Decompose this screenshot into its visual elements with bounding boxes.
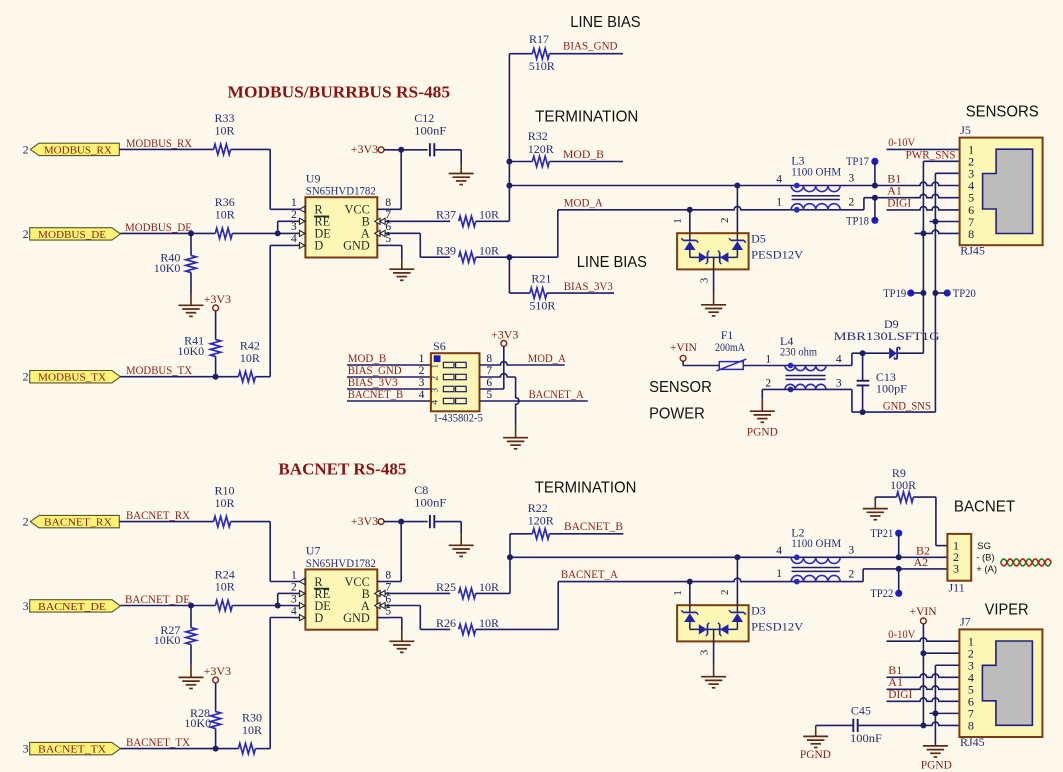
svg-text:BACNET_TX: BACNET_TX xyxy=(126,735,190,749)
svg-text:RJ45: RJ45 xyxy=(960,735,985,749)
svg-text:4: 4 xyxy=(291,233,297,245)
junction +3V3-VCC U7 xyxy=(398,519,404,525)
pin 3 (DE) of U9 xyxy=(291,221,331,241)
wire D5 pin1 drop xyxy=(689,210,691,233)
port BACNET_RX xyxy=(23,515,120,529)
pin 1 (R) of U9 xyxy=(291,197,323,217)
svg-text:BIAS_GND: BIAS_GND xyxy=(563,39,618,53)
junction C45 +VIN xyxy=(920,722,926,728)
svg-text:3: 3 xyxy=(953,562,959,576)
wire BACNET_DE to R24 xyxy=(120,605,215,607)
svg-text:3: 3 xyxy=(698,649,710,655)
svg-text:10R: 10R xyxy=(215,124,235,138)
ground PGND under J7 xyxy=(921,746,952,771)
svg-text:100nF: 100nF xyxy=(414,124,446,138)
resistor R26 xyxy=(436,616,499,635)
capacitor C12 xyxy=(401,111,461,162)
svg-text:120R: 120R xyxy=(528,142,554,156)
resistor R25 xyxy=(436,580,499,599)
junction +3V3-VCC xyxy=(398,147,404,153)
svg-text:510R: 510R xyxy=(529,298,555,312)
svg-text:7: 7 xyxy=(385,209,391,221)
ground below S6 pin7 xyxy=(515,425,517,438)
svg-text:+3V3: +3V3 xyxy=(204,664,231,678)
wire L2 bottom riser xyxy=(862,569,864,582)
wire R24 to U7 pin3 xyxy=(232,605,293,607)
svg-text:3: 3 xyxy=(419,377,425,389)
fuse F1 xyxy=(715,328,746,371)
wire D3 pin1 drop xyxy=(689,582,691,606)
ground below R27 xyxy=(179,666,204,689)
svg-text:BACNET RS-485: BACNET RS-485 xyxy=(278,459,406,478)
pin 7 (B) of U7 xyxy=(362,581,392,601)
power port +3V3 (C12) xyxy=(351,142,402,156)
svg-text:5: 5 xyxy=(486,389,492,401)
svg-text:R32: R32 xyxy=(528,129,548,143)
wire +3V3 to U7 VCC xyxy=(389,522,401,582)
svg-text:10K0: 10K0 xyxy=(154,633,181,647)
svg-text:8: 8 xyxy=(968,227,974,241)
svg-text:10K0: 10K0 xyxy=(178,344,205,358)
junction D9 anode xyxy=(860,350,866,356)
junction pin7 net xyxy=(932,219,938,225)
wire R21 left xyxy=(509,292,530,294)
ic body U7 xyxy=(305,544,377,630)
svg-text:GND_SNS: GND_SNS xyxy=(883,398,931,412)
connector J5 body xyxy=(960,123,1043,258)
inductor L2 (common mode choke) xyxy=(776,526,854,585)
ic body U9 xyxy=(305,171,377,257)
svg-text:100pF: 100pF xyxy=(876,382,907,396)
resistor R40 xyxy=(154,233,196,275)
port MODBUS_TX xyxy=(23,370,121,384)
ground below R9 xyxy=(874,500,876,509)
svg-text:2: 2 xyxy=(719,217,731,223)
power port +3V3 (S6) xyxy=(491,328,518,390)
svg-text:1: 1 xyxy=(419,353,425,365)
svg-text:510R: 510R xyxy=(529,59,555,73)
svg-text:BACNET_RX: BACNET_RX xyxy=(126,508,190,522)
wire RE tie U7 xyxy=(278,593,294,605)
svg-text:10R: 10R xyxy=(242,723,262,737)
svg-text:MBR130LSFT1G: MBR130LSFT1G xyxy=(834,329,940,343)
svg-text:MODBUS_TX: MODBUS_TX xyxy=(126,363,192,377)
power port +VIN xyxy=(670,340,719,366)
svg-text:J7: J7 xyxy=(960,615,971,629)
wire J5 pin8 stub xyxy=(914,230,959,233)
pin 4 (D) of U9 xyxy=(291,233,323,253)
svg-text:D5: D5 xyxy=(751,232,766,246)
inductor L4 (common mode choke) xyxy=(765,334,842,392)
labels SG -(B) +(A) xyxy=(976,541,997,575)
port BACNET_DE xyxy=(23,599,121,613)
wire 0-10V to J7 pin1 xyxy=(887,638,960,641)
ground below D5 xyxy=(713,293,715,305)
wire F1 through L4 xyxy=(743,365,852,367)
svg-text:1: 1 xyxy=(672,218,684,224)
junction RE-DE tie U7 xyxy=(275,603,281,609)
test point TP17 xyxy=(846,154,879,185)
svg-text:2: 2 xyxy=(291,209,297,221)
resistor R24 xyxy=(215,567,235,610)
svg-text:10R: 10R xyxy=(215,496,235,510)
svg-text:3: 3 xyxy=(291,221,297,233)
junction B bus to L2 xyxy=(507,554,513,560)
wire D5 pin2 drop xyxy=(736,186,738,234)
svg-text:0-10V: 0-10V xyxy=(888,627,915,641)
svg-text:5: 5 xyxy=(385,233,391,245)
junction R41-TX xyxy=(213,374,219,380)
svg-text:3: 3 xyxy=(836,378,842,390)
svg-text:4: 4 xyxy=(776,545,782,557)
wire U9 B to R37 xyxy=(389,220,450,222)
wire C45 to PGND xyxy=(815,724,817,726)
wire DIGI row xyxy=(887,207,960,210)
svg-text:BACNET_DE: BACNET_DE xyxy=(125,592,190,606)
junction pin8 net xyxy=(920,230,926,236)
capacitor C45 xyxy=(816,704,960,745)
junction C13 bottom xyxy=(860,409,866,415)
svg-text:2: 2 xyxy=(419,365,425,377)
wire B bus through L2 to J11 xyxy=(510,556,947,558)
svg-text:BACNET_DE: BACNET_DE xyxy=(38,601,106,613)
junction D3 pin2 tap xyxy=(734,554,740,560)
port BACNET_TX xyxy=(23,742,121,756)
test point TP22 xyxy=(870,569,902,600)
svg-text:PESD12V: PESD12V xyxy=(751,247,803,261)
svg-text:1100 OHM: 1100 OHM xyxy=(791,536,841,550)
ground below C12 xyxy=(460,163,462,174)
test point TP20 xyxy=(935,286,975,300)
wire U7 A to R26 xyxy=(389,606,450,630)
junction at R27 tap xyxy=(188,603,194,609)
svg-text:+3V3: +3V3 xyxy=(204,292,231,306)
wire BACNET_A through L2 xyxy=(558,578,863,581)
wire R36 to U9 pin3 xyxy=(232,232,293,234)
svg-text:BACNET_A: BACNET_A xyxy=(529,387,584,401)
svg-text:3: 3 xyxy=(430,388,440,393)
svg-text:6: 6 xyxy=(385,593,391,605)
svg-text:1: 1 xyxy=(291,197,297,209)
svg-text:1-435802-5: 1-435802-5 xyxy=(433,411,483,425)
wire L3 bottom riser xyxy=(863,198,865,210)
resistor R36 xyxy=(215,195,235,238)
ground below D3 xyxy=(713,665,715,677)
junction TP20 xyxy=(932,290,938,296)
junction TP21 xyxy=(896,554,902,560)
wire S6 pin2 xyxy=(347,376,431,378)
svg-text:4: 4 xyxy=(776,173,782,185)
pin 5 (GND) of U9 xyxy=(343,233,391,253)
svg-text:4: 4 xyxy=(419,389,425,401)
wire BACNET_TX to R30 xyxy=(120,748,238,750)
tvs D5 internal diodes xyxy=(681,233,745,269)
svg-text:2: 2 xyxy=(848,568,854,580)
svg-text:10R: 10R xyxy=(215,208,235,222)
pin numbers 1-8 of J5 xyxy=(968,143,974,241)
pin 7 (B) of U9 xyxy=(362,209,392,229)
pin 3 (DE) of U7 xyxy=(291,593,331,613)
wire R30 to U7 pin4 xyxy=(255,618,293,749)
svg-text:100nF: 100nF xyxy=(414,496,446,510)
svg-text:2: 2 xyxy=(430,376,440,381)
ground below C8 xyxy=(460,534,462,545)
svg-text:S6: S6 xyxy=(433,339,446,353)
svg-text:2: 2 xyxy=(23,515,29,529)
power port +3V3 (R41) xyxy=(204,292,231,340)
svg-text:1: 1 xyxy=(765,353,771,365)
wire R41 to TX net xyxy=(215,356,217,376)
wire S6 pin4 xyxy=(347,400,431,402)
vertical bus pin3 net xyxy=(934,173,936,412)
wire U7 GND xyxy=(389,618,402,631)
wire L4 pin4 up xyxy=(852,353,863,365)
junction B bus to choke xyxy=(506,183,512,189)
wire MOD_A through L3 xyxy=(558,206,864,209)
svg-text:+VIN: +VIN xyxy=(910,604,937,618)
label D5 xyxy=(751,232,803,262)
wire B bus to R17 xyxy=(509,53,532,55)
wire D3 pin3 xyxy=(713,641,715,665)
wire J7 pin3 xyxy=(935,664,959,666)
svg-text:10R: 10R xyxy=(479,208,499,222)
power port +3V3 (C8) xyxy=(351,514,402,528)
svg-text:+3V3: +3V3 xyxy=(491,328,518,342)
svg-text:3: 3 xyxy=(23,599,29,613)
wire 0-10V to J5 pin1 xyxy=(887,148,960,150)
resistor R21 xyxy=(529,271,555,312)
wire R22 left xyxy=(510,533,532,535)
svg-text:2: 2 xyxy=(848,197,854,209)
svg-text:1: 1 xyxy=(776,568,782,580)
svg-text:J5: J5 xyxy=(960,123,971,137)
wire R39 to A node xyxy=(476,256,510,258)
svg-text:A2: A2 xyxy=(914,555,929,569)
wire S6 pin6 to +3V3 xyxy=(480,388,504,390)
diode D9 MBR130LSFT1G xyxy=(834,317,940,359)
resistor R42 xyxy=(238,339,260,382)
svg-text:MODBUS/BURRBUS RS-485: MODBUS/BURRBUS RS-485 xyxy=(228,83,451,102)
svg-text:R21: R21 xyxy=(531,271,551,285)
svg-text:TP18: TP18 xyxy=(846,214,869,228)
wire A node down to R21 xyxy=(508,257,510,293)
svg-text:C45: C45 xyxy=(851,704,871,718)
svg-text:4: 4 xyxy=(836,353,842,365)
svg-text:MOD_A: MOD_A xyxy=(564,195,603,209)
svg-text:SG: SG xyxy=(977,541,991,552)
svg-text:MODBUS_DE: MODBUS_DE xyxy=(38,229,106,241)
inductor L3 (common mode choke) xyxy=(776,154,854,213)
pin 2 (RE) of U7 xyxy=(291,581,330,601)
connector J7 body xyxy=(959,615,1042,750)
wire A1 row xyxy=(864,194,960,197)
pin 8 (VCC) of U7 xyxy=(345,569,392,589)
wire J7 pin7 stub xyxy=(930,712,960,714)
vertical bus pin2 net xyxy=(922,161,924,353)
junction pin7 J7 xyxy=(932,710,938,716)
svg-text:+3V3: +3V3 xyxy=(351,514,378,528)
junction TP17 tap xyxy=(872,183,878,189)
svg-text:TERMINATION: TERMINATION xyxy=(535,108,638,125)
wire S6 pin5 BACNET_A xyxy=(480,400,588,402)
tvs diode array body D3 xyxy=(677,605,749,641)
svg-text:1: 1 xyxy=(430,364,440,369)
svg-text:R26: R26 xyxy=(436,616,456,630)
pin 5 (GND) of U7 xyxy=(343,605,391,625)
svg-text:8: 8 xyxy=(385,197,391,209)
svg-text:3: 3 xyxy=(291,593,297,605)
junction R28-TX xyxy=(213,746,219,752)
wire BACNET_B xyxy=(549,533,623,535)
svg-text:GND: GND xyxy=(343,239,370,253)
junction RE-DE tie xyxy=(275,230,281,236)
section label SENSOR POWER xyxy=(649,379,712,423)
wire D3 pin2 drop xyxy=(736,557,738,605)
capacitor C13 xyxy=(857,353,908,412)
svg-text:BACNET_B: BACNET_B xyxy=(348,387,404,401)
svg-text:+ (A): + (A) xyxy=(976,564,997,575)
svg-text:8: 8 xyxy=(486,353,492,365)
wire A2 row to J11 pin3 xyxy=(863,568,947,570)
svg-text:2: 2 xyxy=(23,142,29,156)
wire J5 pin7 stub xyxy=(930,221,960,223)
svg-text:10K0: 10K0 xyxy=(154,261,181,275)
svg-text:8: 8 xyxy=(385,569,391,581)
svg-text:120R: 120R xyxy=(528,513,554,527)
svg-text:DIGI: DIGI xyxy=(888,687,912,701)
wire J7 pin2 xyxy=(923,652,959,654)
svg-text:TP21: TP21 xyxy=(870,526,893,540)
pin numbers 1-8 of J7 xyxy=(968,634,974,732)
wire R40 to ground xyxy=(190,273,192,294)
svg-text:8: 8 xyxy=(968,719,974,733)
svg-text:2: 2 xyxy=(291,581,297,593)
svg-text:10R: 10R xyxy=(479,580,499,594)
power port +VIN (J7) xyxy=(910,604,937,725)
svg-text:5: 5 xyxy=(385,605,391,617)
svg-text:SN65HVD1782: SN65HVD1782 xyxy=(306,184,376,198)
resistor R32 xyxy=(528,129,554,167)
svg-text:BACNET_RX: BACNET_RX xyxy=(44,517,112,529)
svg-text:1100 OHM: 1100 OHM xyxy=(791,164,841,178)
dip switch S6 body xyxy=(430,339,483,425)
wire R42 to U9 pin4 xyxy=(255,245,293,376)
wire R27 to ground xyxy=(190,645,192,666)
svg-text:2: 2 xyxy=(23,370,29,384)
pin labels D3 xyxy=(672,589,731,655)
svg-text:MODBUS_TX: MODBUS_TX xyxy=(38,372,106,384)
svg-text:PGND: PGND xyxy=(800,747,831,761)
ground below U9 xyxy=(401,258,403,269)
svg-text:PGND: PGND xyxy=(921,757,952,771)
ground PGND under L4 xyxy=(747,400,778,439)
svg-text:+3V3: +3V3 xyxy=(351,142,378,156)
svg-text:TP17: TP17 xyxy=(846,154,869,168)
svg-text:1: 1 xyxy=(776,196,782,208)
ground below R40 xyxy=(179,294,204,317)
svg-text:BIAS_3V3: BIAS_3V3 xyxy=(564,279,613,293)
pin 6 (A) of U7 xyxy=(361,593,392,613)
svg-text:+VIN: +VIN xyxy=(670,340,697,354)
tvs D3 internal diodes xyxy=(681,605,745,641)
wire R37 to B bus xyxy=(476,220,510,222)
vertical B bus wire xyxy=(508,54,510,222)
resistor R9 xyxy=(890,466,916,502)
wire R25 to B bus xyxy=(476,592,510,594)
svg-text:PGND: PGND xyxy=(747,424,778,438)
port MODBUS_RX xyxy=(23,142,120,156)
svg-text:MODBUS_DE: MODBUS_DE xyxy=(125,220,192,234)
pin 8 (VCC) of U9 xyxy=(345,197,392,217)
capacitor C8 xyxy=(401,483,461,534)
svg-text:- (B): - (B) xyxy=(976,552,994,563)
vertical B bus bottom xyxy=(509,534,511,594)
vertical pin3 net to PGND xyxy=(934,665,936,746)
svg-text:4: 4 xyxy=(430,400,440,405)
wire U9 GND xyxy=(389,245,402,258)
svg-text:DIGI: DIGI xyxy=(887,196,911,210)
wire R33 to U9 pin1 xyxy=(231,149,294,209)
junction +VIN pin2 xyxy=(920,650,926,656)
junction D3 pin1 tap xyxy=(687,579,693,585)
svg-text:100R: 100R xyxy=(890,478,916,492)
svg-text:SENSORS: SENSORS xyxy=(966,104,1039,121)
wire A node up to MOD_A xyxy=(509,210,557,257)
svg-text:R25: R25 xyxy=(436,580,456,594)
junction TP22 xyxy=(896,566,902,572)
wire RE tie xyxy=(278,221,294,233)
svg-text:1: 1 xyxy=(291,569,297,581)
svg-text:1: 1 xyxy=(672,590,684,596)
wire S6 pin7 to ground xyxy=(480,374,520,425)
wire MODBUS_TX to R42 xyxy=(120,376,238,378)
svg-text:TP19: TP19 xyxy=(883,286,906,300)
pin labels D5 xyxy=(672,217,731,283)
svg-text:2: 2 xyxy=(765,378,771,390)
svg-text:10R: 10R xyxy=(240,351,260,365)
svg-text:R39: R39 xyxy=(436,244,456,258)
resistor R33 xyxy=(214,111,235,154)
svg-text:BACNET_TX: BACNET_TX xyxy=(38,744,106,756)
svg-text:3: 3 xyxy=(848,173,854,185)
junction D5 pin2 tap xyxy=(734,183,740,189)
junction B bus R32 xyxy=(506,159,512,165)
wire B1 to J7 pin4 xyxy=(887,674,960,677)
wire R10 to U7 pin1 xyxy=(231,522,294,582)
svg-text:230 ohm: 230 ohm xyxy=(780,344,818,358)
wire L4 pin2 to PGND xyxy=(762,389,852,399)
svg-text:10R: 10R xyxy=(479,244,499,258)
test point TP18 xyxy=(846,198,879,228)
resistor R22 xyxy=(528,501,554,539)
svg-text:VIPER: VIPER xyxy=(985,601,1029,618)
svg-text:6: 6 xyxy=(385,221,391,233)
svg-text:D: D xyxy=(314,611,323,625)
wire R28 to TX net xyxy=(215,729,217,749)
svg-text:SENSOR: SENSOR xyxy=(649,379,712,396)
svg-text:PWR_SNS: PWR_SNS xyxy=(906,147,956,161)
wire D5 pin3 xyxy=(713,269,715,293)
label D3 xyxy=(751,604,803,634)
rj45 jack symbol of J7 xyxy=(982,641,1032,725)
svg-text:10K0: 10K0 xyxy=(184,716,211,730)
svg-text:MODBUS_RX: MODBUS_RX xyxy=(126,136,192,150)
svg-text:MOD_B: MOD_B xyxy=(563,147,604,161)
test point TP21 xyxy=(870,526,902,557)
svg-text:GND: GND xyxy=(343,611,370,625)
svg-text:7: 7 xyxy=(385,581,391,593)
wire R9 left to ground xyxy=(875,497,896,500)
